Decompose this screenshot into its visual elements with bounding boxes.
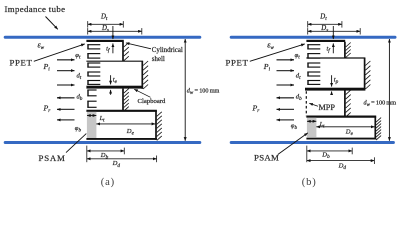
dimension D_t fig b xyxy=(308,23,342,25)
impedance tube bottom wall fig a xyxy=(5,141,200,144)
incident wave arrows fig b xyxy=(277,59,295,61)
impedance tube bottom wall fig b xyxy=(231,141,393,144)
top face plate fig b xyxy=(306,40,345,42)
svg-text:(a): (a) xyxy=(101,177,115,188)
PSAM thickness L_t fig b xyxy=(307,120,316,122)
impedance tube top wall fig a xyxy=(5,36,200,39)
svg-text:Clapboard: Clapboard xyxy=(138,98,167,105)
svg-text:(b): (b) xyxy=(302,177,317,188)
plate thickness dimension fig a xyxy=(110,75,112,84)
PPET perforated panel with extended tubes, fig a xyxy=(87,44,100,46)
PSAM thickness L_t fig a xyxy=(87,115,96,117)
svg-text:Cylindrical: Cylindrical xyxy=(152,47,183,54)
tube diameter d_w fig a xyxy=(184,39,186,141)
PPET lower tubes fig a xyxy=(87,89,96,91)
tube diameter d_w fig b xyxy=(388,39,390,141)
top face plate fig a xyxy=(86,40,123,42)
PSAM pointer fig b xyxy=(278,133,308,155)
svg-text:Impedance tube: Impedance tube xyxy=(5,4,66,14)
dimension D_t fig a xyxy=(88,23,124,25)
reflected wave arrows fig b xyxy=(277,97,295,99)
PPET perforated panel with extended tubes, fig b xyxy=(307,44,320,46)
cylindrical shell pointer xyxy=(126,43,151,49)
bottom cavity box fig b xyxy=(306,115,376,117)
plate thickness dimension fig b xyxy=(331,75,333,86)
lower wall fig b xyxy=(344,90,346,116)
svg-text:PSAM: PSAM xyxy=(39,153,66,163)
bottom cavity box fig a xyxy=(86,110,156,112)
PSAM pointer fig a xyxy=(66,134,86,153)
impedance tube top wall fig b xyxy=(231,36,395,39)
svg-text:MPP: MPP xyxy=(319,103,336,112)
dimension D_d fig b xyxy=(307,160,375,162)
dimension D_b fig a xyxy=(86,146,88,163)
dimension D_s fig a xyxy=(88,30,142,32)
middle cavity box fig b xyxy=(306,57,365,59)
cavity depth D_e fig a xyxy=(96,123,155,125)
dimension D_b fig b xyxy=(306,146,308,163)
panel thickness t_f fig a xyxy=(112,26,114,39)
MPP pointer xyxy=(309,103,318,106)
dimension D_d fig a xyxy=(87,158,157,160)
PSAM porous layer fig a xyxy=(87,112,97,138)
PSAM porous layer fig b xyxy=(307,118,317,138)
incident wave arrows fig a xyxy=(57,59,75,61)
MPP dashed front line fig b xyxy=(305,91,307,116)
cavity depth D_e fig b xyxy=(316,126,374,128)
svg-text:PPET: PPET xyxy=(226,57,249,67)
upper shell wall fig b xyxy=(344,42,346,58)
reflected wave arrows fig a xyxy=(57,97,75,99)
middle cavity box fig a xyxy=(86,60,143,62)
svg-text:PSAM: PSAM xyxy=(254,153,279,163)
MPP plate fig b xyxy=(305,88,365,91)
PPET pointer fig b xyxy=(250,44,305,61)
lower wall fig a xyxy=(122,89,124,111)
panel thickness t_f fig b xyxy=(332,26,334,39)
svg-text:PPET: PPET xyxy=(10,57,33,67)
clapboard plate fig a xyxy=(86,86,143,89)
svg-text:shell: shell xyxy=(152,56,165,63)
dimension D_s fig b xyxy=(308,30,361,32)
upper shell wall fig a xyxy=(122,42,124,61)
impedance tube pointer arrow xyxy=(46,17,58,30)
PPET pointer fig a xyxy=(34,44,85,61)
clapboard pointer xyxy=(134,89,150,97)
